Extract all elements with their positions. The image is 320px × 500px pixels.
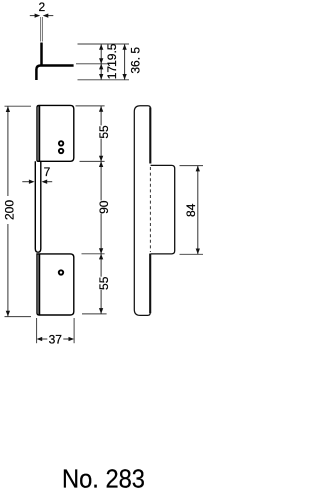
svg-text:55: 55 xyxy=(97,125,111,139)
front view: right extension line y313.9 xyxy=(82,313,107,315)
side view: extension line bottom xyxy=(180,253,204,255)
front view: chain dimension line 55/90/55 xyxy=(99,106,103,314)
top view: outer dimension line 36.5 xyxy=(122,44,126,79)
top view: extension line middle xyxy=(76,63,108,65)
svg-text:No. 283: No. 283 xyxy=(62,463,145,493)
front view: top hole lower xyxy=(59,149,63,153)
front view: left extension line bottom xyxy=(5,316,32,318)
front view: bottom extension line left xyxy=(36,318,38,343)
side view: main outline xyxy=(134,106,150,316)
svg-text:36. 5: 36. 5 xyxy=(128,47,142,74)
front view: bottom section bend line xyxy=(38,254,40,315)
top view: profile upper flange xyxy=(40,43,43,65)
front view: right extension line y161.4 xyxy=(80,160,105,162)
front view: top section bend line xyxy=(38,106,40,162)
front view: right extension line y105.9 xyxy=(76,105,105,107)
front view: right extension line y253.8 xyxy=(82,253,105,255)
front view: width dimension 7 arrows xyxy=(22,180,52,184)
front view: overall dimension line 200 xyxy=(6,106,10,316)
svg-text:55: 55 xyxy=(97,276,111,290)
svg-text:200: 200 xyxy=(3,200,17,220)
top view: extension lines of thickness xyxy=(41,17,43,42)
side view: plate edge thick lower xyxy=(149,254,151,314)
side view: extension line top xyxy=(180,165,204,167)
front view: left extension line top xyxy=(5,105,32,107)
side view: dimension line 84 xyxy=(196,166,200,254)
svg-text:84: 84 xyxy=(184,203,198,217)
svg-text:19.5: 19.5 xyxy=(105,43,119,67)
side view: plate edge thick upper xyxy=(149,108,151,164)
side view: offset strip bump xyxy=(151,165,175,254)
front view: top section plate xyxy=(37,105,74,161)
top view: extension line top xyxy=(78,43,130,45)
front view: bottom hole xyxy=(59,270,63,274)
svg-text:37: 37 xyxy=(49,332,63,346)
svg-text:2: 2 xyxy=(39,0,46,14)
top view: thickness dimension arrows xyxy=(30,13,54,17)
top view: extension line bottom xyxy=(78,79,130,81)
front view: top hole upper xyxy=(59,141,63,145)
svg-text:17: 17 xyxy=(105,66,119,80)
front view: bottom section plate xyxy=(37,254,74,315)
svg-text:7: 7 xyxy=(44,165,51,179)
top view: inner dimension line 19.5/17 xyxy=(99,44,103,79)
front view: middle strip xyxy=(35,161,41,252)
front view: width dimension 37 xyxy=(37,337,75,341)
svg-text:90: 90 xyxy=(97,200,111,214)
front view: bottom extension line right xyxy=(73,318,75,343)
top view: profile arm and lower flange xyxy=(36,66,73,81)
side view: hidden line of bend xyxy=(149,167,151,252)
